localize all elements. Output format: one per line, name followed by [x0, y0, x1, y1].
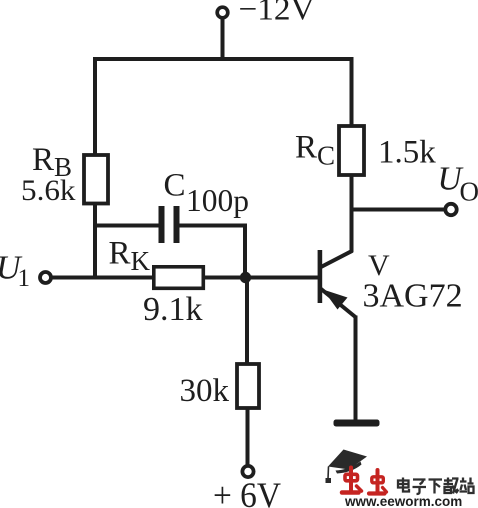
transistor V base bar — [318, 250, 323, 303]
terminal UO output — [445, 204, 456, 215]
resistor RK 9.1k — [154, 267, 204, 289]
svg-text:1: 1 — [18, 265, 31, 292]
terminal -12V — [217, 7, 228, 18]
svg-text:−12V: −12V — [239, 0, 315, 27]
wire top rail — [95, 59, 352, 155]
wire 30k bottom lead — [246, 408, 250, 465]
svg-text:O: O — [460, 177, 478, 207]
resistor 30k — [237, 364, 259, 408]
wire emitter to ground — [354, 316, 358, 422]
watermark text 电子下载站 — [398, 478, 474, 495]
svg-text:RK: RK — [109, 236, 151, 277]
svg-text:www.eeworm.com: www.eeworm.com — [344, 494, 462, 508]
wire junction down to 30k — [245, 278, 249, 365]
resistor RC — [339, 126, 364, 175]
svg-text:RC: RC — [295, 130, 335, 171]
svg-text:1.5k: 1.5k — [378, 135, 436, 171]
terminal +6V — [242, 466, 253, 477]
svg-text:9.1k: 9.1k — [143, 291, 203, 328]
watermark logo graduation cap — [326, 450, 368, 484]
svg-text:C: C — [164, 168, 186, 204]
wire RB bottom lead — [93, 204, 97, 280]
transistor V emitter lead — [321, 289, 357, 318]
node junction dot — [240, 272, 251, 283]
terminal U1 input — [40, 272, 51, 283]
transistor V emitter arrow — [323, 290, 348, 310]
wire -12V terminal lead — [221, 18, 225, 59]
svg-text:100p: 100p — [186, 183, 249, 218]
wire input to base — [52, 276, 318, 280]
svg-text:+ 6V: + 6V — [213, 475, 281, 508]
transistor V collector lead — [320, 251, 353, 268]
svg-text:3AG72: 3AG72 — [363, 278, 463, 315]
wire output — [352, 208, 445, 212]
ground — [334, 420, 380, 427]
resistor RB — [84, 155, 108, 204]
watermark text 虫虫 (red bug characters) — [342, 468, 387, 494]
wire capacitor left branch — [93, 224, 159, 228]
wire capacitor right branch — [179, 226, 245, 278]
capacitor C — [159, 206, 180, 243]
svg-text:30k: 30k — [180, 373, 230, 409]
wire RC bottom to collector — [350, 175, 354, 252]
svg-text:5.6k: 5.6k — [21, 175, 76, 207]
